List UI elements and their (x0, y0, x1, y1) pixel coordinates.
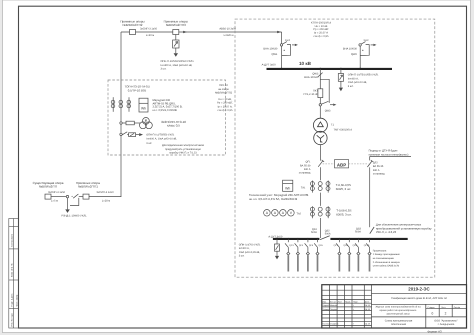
wire bay2 riser (359, 46, 361, 68)
svg-text:500А: 500А (325, 233, 331, 236)
svg-text:ПКУ-10: ПКУ-10 (219, 84, 228, 87)
svg-text:Петров: Петров (330, 308, 337, 311)
label T1 (331, 123, 352, 131)
feeder QF6 (314, 238, 323, 272)
ammeter A2 (272, 210, 279, 217)
svg-text:УКК-П, к +13,23: УКК-П, к +13,23 (376, 230, 397, 234)
label receiving pole bottom (76, 181, 100, 189)
svg-text:А-ДУТ 3х50: А-ДУТ 3х50 (262, 63, 277, 66)
svg-text:L=920 м: L=920 м (224, 34, 234, 37)
wire bay1 riser (281, 32, 283, 68)
load break switch QW1 (280, 42, 294, 56)
svg-text:ВНА 10/630: ВНА 10/630 (304, 76, 319, 79)
svg-text:Iн=400 А,: Iн=400 А, (239, 247, 250, 250)
svg-text:ТА1: ТА1 (301, 186, 306, 189)
feeder QF5 (305, 238, 314, 272)
svg-text:04.19: 04.19 (365, 308, 371, 311)
label QS1 (311, 228, 317, 234)
node bay1 on bus (281, 68, 283, 70)
label tech meter (249, 193, 308, 201)
feeder QF3 (285, 238, 294, 272)
disconnector blade PKU arrester branch (122, 132, 128, 135)
DGU input line (370, 157, 411, 228)
svg-text:Инв. № подл.: Инв. № подл. (11, 312, 14, 326)
svg-text:04.19: 04.19 (365, 323, 371, 326)
voltmeter V (288, 210, 295, 217)
label QS2 (325, 229, 331, 235)
label bus 0.4 cable (268, 235, 283, 238)
label DGU note (369, 150, 409, 157)
label TA1 (301, 186, 306, 189)
svg-text:Изм.: Изм. (322, 300, 327, 303)
svg-text:630 А: 630 А (304, 168, 311, 171)
label QW1 small top (285, 39, 291, 42)
svg-text:ЗхСИП-3 1х50: ЗхСИП-3 1х50 (96, 191, 114, 194)
svg-text:Подвод от ДГУ-Я будет: Подвод от ДГУ-Я будет (369, 150, 399, 153)
arrow reserve QW2 (373, 44, 376, 46)
disconnector QS3 blade (370, 227, 374, 234)
arrow QW3 (333, 104, 336, 106)
svg-text:№док.: №док. (345, 300, 351, 303)
surge arrester FV1 on line 2 (173, 35, 179, 54)
svg-text:ТА2: ТА2 (297, 212, 302, 215)
transformer bay QW3 with fuse PKT (318, 69, 333, 118)
label CT type (125, 85, 151, 93)
svg-text:№ВЛИ/о2/ТП1: №ВЛИ/о2/ТП1 (78, 185, 98, 189)
svg-text:2оп2: 2оп2 (364, 39, 370, 42)
ground arrow OPN 10kV (339, 88, 343, 92)
svg-text:№ВЛИ/о2/ТП: №ВЛИ/о2/ТП (39, 185, 57, 189)
ground arrow bottom-left (65, 209, 70, 213)
svg-text:600/5, 3 шт.: 600/5, 3 шт. (336, 213, 352, 217)
ammeter A3 (280, 210, 287, 217)
label bus cable (262, 63, 277, 66)
svg-text:ВА 55-35: ВА 55-35 (373, 165, 384, 168)
ground arrow 0.4kV (275, 256, 279, 260)
note text UKK right (376, 223, 432, 235)
feeder QF4 (295, 238, 304, 272)
label QW1 (263, 48, 278, 56)
label OPN-10 under arrester (161, 60, 195, 71)
svg-text:Рр = 250 кВТ,: Рр = 250 кВТ, (217, 102, 233, 105)
label OPN 0.4 (239, 243, 261, 257)
label poles TP2 (120, 20, 144, 28)
current transformer TA phase B (119, 100, 123, 108)
svg-text:3 шт.: 3 шт. (348, 85, 354, 88)
left margin stamp boxes (9, 219, 19, 329)
svg-text:500А: 500А (311, 231, 317, 234)
wire transformer to QF1 (319, 145, 321, 161)
svg-text:QF2: QF2 (373, 161, 378, 164)
svg-text:Uн = 10 кВ,: Uн = 10 кВ, (218, 98, 232, 101)
svg-text:ПКТ: ПКТ (313, 89, 318, 92)
svg-text:№ВЛИ/о2/ТП2: №ВЛИ/о2/ТП2 (215, 92, 233, 95)
svg-text:привязан на расстоянии(вынос): привязан на расстоянии(вынос) (369, 153, 409, 156)
svg-text:0: 0 (432, 311, 434, 315)
node transformer bay on bus (319, 68, 321, 70)
title block grid left (322, 285, 372, 328)
svg-text:Iр = 20,07 А,: Iр = 20,07 А, (218, 105, 233, 108)
wire left riser down to PKU box (120, 32, 122, 197)
label CT row2 (336, 209, 352, 217)
svg-text:учтен кабель БАВБ 3х70: учтен кабель БАВБ 3х70 (373, 265, 400, 268)
svg-text:ОПН-П-10/Тб/10/550 УХЛ1: ОПН-П-10/Тб/10/550 УХЛ1 (348, 74, 379, 77)
stage values (432, 311, 447, 315)
node bay2 on bus (359, 68, 361, 70)
svg-text:Согласовано: Согласовано (11, 233, 14, 247)
label RLND (61, 214, 87, 217)
transformer T1 (313, 118, 327, 145)
wire top feeder horizontal (121, 32, 282, 197)
label QW3 top (304, 72, 319, 79)
svg-text:ТМГ-630/10/0,4: ТМГ-630/10/0,4 (334, 128, 353, 131)
dashed box PKU-10 (108, 80, 226, 155)
svg-text:10 кВ: 10 кВ (299, 61, 312, 66)
cable box receiving pole (83, 194, 89, 199)
ground arrow under arrester (174, 53, 178, 57)
svg-text:Для подключения электросчетчик: Для подключения электросчетчиков (162, 144, 205, 147)
svg-text:2 обозначения в камерах: 2 обозначения в камерах (373, 261, 401, 264)
label SIP bottom right (96, 191, 114, 202)
svg-text:3 шт.: 3 шт. (239, 255, 245, 258)
label TA2 (297, 212, 302, 215)
svg-text:1 Камеру присоединения: 1 Камеру присоединения (373, 253, 401, 256)
svg-text:эл.привод: эл.привод (373, 173, 385, 176)
organization (434, 319, 458, 326)
wire QF1 line to bus 0.4 (319, 193, 321, 238)
svg-text:10кА рАЗ+10 кВ,: 10кА рАЗ+10 кВ, (348, 81, 367, 84)
circuit breaker QF2 (367, 160, 373, 167)
svg-text:ВНА 10/630: ВНА 10/630 (343, 48, 358, 51)
AVR box (335, 160, 349, 168)
voltage transformer 3xZNOLP trefoil (140, 118, 153, 129)
arrow reserve QW1 (295, 44, 298, 46)
svg-text:QW3: QW3 (325, 109, 331, 112)
svg-text:L=5 м: L=5 м (51, 199, 58, 202)
doc number (408, 287, 430, 292)
node arrester tap (120, 133, 122, 135)
svg-text:ОПН-П-10/550/10/550 УХЛ1: ОПН-П-10/550/10/550 УХЛ1 (161, 60, 195, 63)
svg-text:эл.привод: эл.привод (299, 172, 311, 175)
cable box existing pole (45, 194, 51, 199)
bus 0.4kV section 2 (330, 238, 407, 240)
section switch blade QS (320, 236, 330, 240)
label ZNOLP (161, 120, 186, 128)
cable termination box 1 (130, 30, 136, 35)
svg-text:QW3: QW3 (312, 72, 318, 75)
svg-text:А-ДУТ 3х50: А-ДУТ 3х50 (268, 235, 283, 238)
svg-text:АВБб-10 3х50: АВБб-10 3х50 (219, 27, 236, 30)
svg-text:600/5, 3 шт.: 600/5, 3 шт. (336, 187, 352, 191)
arrow cable direction right (277, 31, 281, 34)
label OPN PKU (146, 133, 177, 145)
node VT tap (120, 122, 122, 124)
svg-text:класс 0,5: класс 0,5 (167, 124, 180, 128)
feeder QF7 (334, 238, 341, 272)
meter Wh box 0.4kV (283, 180, 293, 191)
svg-text:АВР: АВР (337, 162, 346, 167)
svg-text:QF10: QF10 (364, 244, 370, 247)
object name row (391, 297, 447, 300)
current transformers row2 (310, 206, 330, 218)
label KTPN params (311, 21, 332, 38)
current transformer TA phase C (127, 97, 131, 112)
notes text bottom right (373, 249, 401, 267)
svg-text:2: 2 (445, 311, 447, 315)
bus 10kV (267, 68, 393, 70)
label OPN 10kV (348, 74, 379, 88)
svg-text:ЗхСИП-3 1х50: ЗхСИП-3 1х50 (48, 191, 66, 194)
arrester OPN-0,4 PKU horizontal (129, 133, 140, 137)
label poles TP3 (164, 20, 188, 28)
arrester bay 0.4kV (276, 238, 278, 240)
svg-text:архитектурный заказ: архитектурный заказ (386, 313, 409, 316)
title block right part dividers (372, 294, 467, 328)
svg-text:Кол.уч: Кол.уч (330, 300, 336, 303)
label QF2 (373, 161, 385, 175)
svg-text:Взам. инв. №: Взам. инв. № (11, 263, 14, 277)
meter Wh box PKU (139, 98, 148, 112)
load break switch QW2 (359, 42, 373, 56)
label PKT fuse (303, 89, 318, 96)
svg-text:Подп. и дата: Подп. и дата (11, 293, 14, 307)
note text PKU bottom (162, 144, 205, 155)
node OPN bay on bus (340, 68, 342, 70)
svg-text:ОПН-0,4/700 УХЛ1: ОПН-0,4/700 УХЛ1 (239, 243, 261, 246)
surge arrester OPN 10kV on bus (338, 69, 343, 88)
svg-text:ОПН-П-0,4/Тб/550 УХЛ1: ОПН-П-0,4/Тб/550 УХЛ1 (146, 133, 175, 136)
svg-text:QW2: QW2 (351, 53, 357, 56)
svg-text:кл.т. 0,5S/1,0 ОО2В: кл.т. 0,5S/1,0 ОО2В (153, 109, 177, 112)
label SIP bottom left (48, 191, 66, 202)
svg-text:Схема принципиальная: Схема принципиальная (385, 319, 413, 322)
label CT row1 (336, 183, 352, 191)
svg-text:Газификация жилого дома Ж-В об: Газификация жилого дома Ж-В об, АУР 9х5х… (391, 297, 447, 300)
feeder QF9 (353, 238, 360, 272)
wire bottom-left circuit (51, 196, 121, 198)
svg-text:Листов: Листов (454, 306, 461, 309)
svg-text:Iн=400 А, 10кА рАЗ+10 кВ,: Iн=400 А, 10кА рАЗ+10 кВ, (146, 138, 177, 141)
svg-text:L=28 м: L=28 м (102, 199, 111, 202)
label QW2 small top (364, 39, 370, 42)
svg-text:Лист: Лист (338, 300, 342, 303)
svg-text:QF1: QF1 (306, 161, 311, 164)
feeder QF8 (344, 238, 351, 272)
title block outer (322, 285, 467, 328)
label wire SIP top (140, 27, 158, 37)
svg-text:Смирнов: Смирнов (330, 323, 338, 326)
label existing pole (33, 181, 64, 189)
svg-text:г. Анадырьева: г. Анадырьева (438, 323, 455, 326)
label QS3 (355, 227, 361, 233)
svg-text:cos ф = 0,95: cos ф = 0,95 (314, 35, 329, 38)
svg-text:ПТ1,2-10-40: ПТ1,2-10-40 (303, 93, 318, 96)
label cable AVBb right (219, 27, 236, 37)
svg-text:2019-2-ЭС: 2019-2-ЭС (408, 287, 430, 292)
label QW2 (343, 48, 358, 56)
dashed box KTPN (235, 19, 435, 277)
svg-text:630 А: 630 А (373, 169, 380, 172)
dashed link AVR left (323, 163, 335, 165)
current transformers row1 (310, 181, 330, 193)
circuit breaker QF1 (318, 160, 324, 180)
svg-text:ВА 55-39: ВА 55-39 (300, 164, 311, 167)
svg-text:500А: 500А (355, 231, 361, 234)
ammeter A1 (264, 210, 271, 217)
stage header (428, 306, 461, 309)
svg-text:2оп2: 2оп2 (285, 39, 291, 42)
label QF1 (299, 161, 311, 175)
feeder QF10 (364, 238, 371, 272)
svg-text:Подп.: Подп. (353, 300, 359, 303)
svg-text:предусмотреть установленную: предусмотреть установленную (165, 148, 201, 151)
svg-text:Примечания:: Примечания: (373, 249, 387, 252)
disconnector RLND with earth switch (66, 194, 79, 209)
current transformer TA phase A (111, 97, 115, 112)
svg-text:3 шт.: 3 шт. (146, 142, 152, 145)
label PKU-10 title (215, 84, 233, 94)
svg-text:L=30 м: L=30 м (146, 34, 155, 37)
svg-text:Wh: Wh (285, 187, 290, 191)
svg-text:Лист: Лист (441, 306, 445, 309)
arrow right PKU arrester (139, 133, 143, 136)
format label (427, 329, 442, 333)
label load params PKU (217, 98, 233, 112)
svg-text:РЛНД-1-10/400 УХЛ1: РЛНД-1-10/400 УХЛ1 (61, 214, 87, 217)
svg-text:Iн=400 А, 10кА рАЗ+10 кВ,: Iн=400 А, 10кА рАЗ+10 кВ, (161, 64, 193, 67)
svg-text:не показывающими: не показывающими (373, 257, 395, 260)
label QW3 bottom (325, 109, 331, 112)
svg-text:ак. кл. 3,5-А/7-0,4% 5А, 3х230: ак. кл. 3,5-А/7-0,4% 5А, 3х230/400 В (249, 197, 297, 201)
label meter Mercury PKU (153, 99, 183, 112)
cable termination box 2 (173, 30, 179, 35)
svg-text:коробку УКК-П, п 7/1,23: коробку УКК-П, п 7/1,23 (169, 152, 197, 155)
svg-text:ЗхСИП-3 1х50: ЗхСИП-3 1х50 (140, 27, 158, 30)
svg-text:ВНА 10/630: ВНА 10/630 (263, 48, 278, 51)
sheet name (385, 319, 413, 326)
svg-text:ООО "Архкомплекс": ООО "Архкомплекс" (434, 319, 458, 322)
svg-text:Формат А3: Формат А3 (427, 329, 442, 333)
svg-text:10кА рАЗ+0,45 кВ,: 10кА рАЗ+0,45 кВ, (239, 251, 261, 254)
project description (375, 306, 421, 316)
title block header texts (322, 300, 370, 325)
svg-text:Стадия: Стадия (428, 306, 435, 309)
arrow cable direction mid (183, 31, 187, 34)
wire VT branch (122, 122, 140, 124)
bus 0.4kV section 1 (273, 238, 320, 240)
svg-text:0,5/ТР-10 50/5: 0,5/ТР-10 50/5 (128, 89, 147, 93)
fuse VT (126, 121, 134, 125)
svg-text:cos ф = 0,95: cos ф = 0,95 (218, 109, 233, 112)
svg-text:№ВЛИ/о2/ТП3: №ВЛИ/о2/ТП3 (166, 23, 186, 27)
svg-text:на опоре: на опоре (218, 88, 229, 91)
svg-text:обеспечения: обеспечения (391, 323, 407, 326)
svg-text:Разраб.: Разраб. (322, 304, 330, 307)
svg-text:Wh: Wh (141, 107, 146, 111)
svg-text:QW1: QW1 (271, 53, 277, 56)
label 10kV (299, 61, 312, 66)
svg-text:числ. завер.: числ. завер. (15, 294, 18, 307)
dashed link AVR right (349, 163, 369, 165)
svg-text:3 шт.: 3 шт. (161, 68, 167, 71)
svg-text:Iн=400 А,: Iн=400 А, (348, 77, 359, 80)
svg-text:Иванов: Иванов (330, 304, 337, 307)
svg-text:04.19: 04.19 (365, 304, 371, 307)
